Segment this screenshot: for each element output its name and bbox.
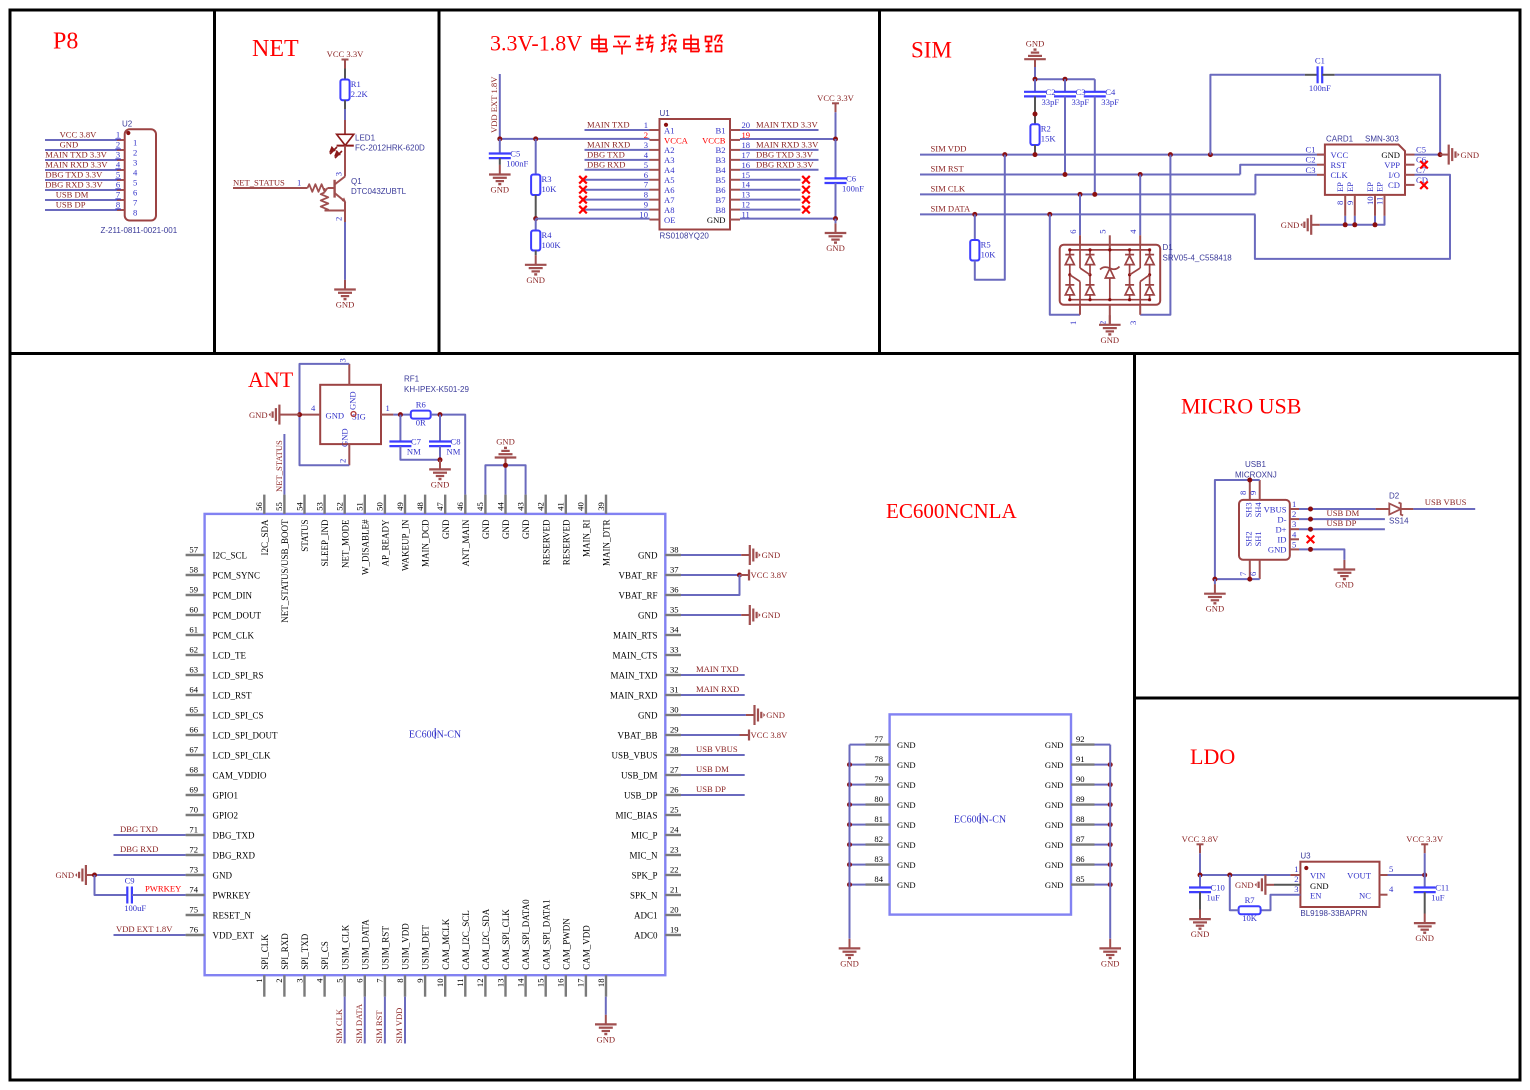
- wire VCC 3.3V to VCCB: [835, 112, 837, 139]
- svg-text:72: 72: [189, 845, 198, 855]
- U1 pin 5 stub: [650, 169, 660, 171]
- U1 pin 3 stub: [650, 149, 660, 151]
- LDO U3 body: [1300, 862, 1379, 907]
- svg-text:B3: B3: [715, 155, 725, 165]
- svg-text:1: 1: [644, 120, 648, 130]
- svg-text:SIM CLK: SIM CLK: [334, 1008, 344, 1043]
- D1 column 3 links: [1129, 250, 1131, 255]
- svg-text:GND: GND: [55, 870, 74, 880]
- ground below C11: [1414, 914, 1436, 944]
- module pin 2 stub: [283, 975, 285, 997]
- capacitor C6 100nF: [825, 174, 865, 194]
- U1 pin 8 stub: [650, 199, 660, 201]
- svg-text:EP: EP: [1375, 182, 1385, 192]
- wire pin 37 VCC3.8: [681, 574, 740, 576]
- wire pin 29 VCC3.8: [681, 734, 740, 736]
- svg-text:73: 73: [189, 865, 198, 875]
- svg-text:GND: GND: [638, 611, 658, 621]
- resistor R1 2.2K: [340, 79, 368, 100]
- module pin 43 stub: [524, 495, 526, 514]
- svg-text:MAIN_RXD: MAIN_RXD: [610, 691, 658, 701]
- svg-text:1: 1: [1294, 864, 1298, 874]
- svg-text:45: 45: [475, 502, 485, 511]
- svg-text:MAIN_TXD: MAIN_TXD: [611, 671, 658, 681]
- svg-text:SIM VDD: SIM VDD: [931, 144, 967, 154]
- wire pin 27 USB DM: [681, 774, 745, 776]
- svg-text:I/O: I/O: [1389, 170, 1400, 180]
- wire GND block left rail: [849, 745, 851, 939]
- wire VCC3.8 to VIN rail: [1199, 853, 1201, 875]
- wire bus SIM CLK: [920, 193, 1255, 195]
- wire GND block right rail: [1109, 745, 1111, 939]
- capacitor C10 1uF: [1189, 883, 1225, 903]
- U2 pin 4 stub: [117, 169, 125, 171]
- svg-text:WAKEUP_IN: WAKEUP_IN: [401, 519, 411, 571]
- svg-text:C4: C4: [1105, 87, 1116, 97]
- wire VOUT to VCC3.3: [1388, 874, 1425, 876]
- svg-text:87: 87: [1076, 834, 1085, 844]
- svg-text:D1: D1: [1163, 243, 1174, 252]
- svg-text:GND: GND: [213, 871, 233, 881]
- svg-text:USIM_DATA: USIM_DATA: [360, 919, 370, 970]
- D1 diode column 3 top diode: [1125, 255, 1134, 265]
- svg-text:5: 5: [644, 160, 648, 170]
- svg-text:69: 69: [189, 785, 198, 795]
- svg-text:15: 15: [536, 979, 546, 988]
- wire DBG RXD to pin 72: [114, 854, 186, 856]
- GND block pin 91 stub: [1071, 763, 1095, 765]
- svg-text:LCD_TE: LCD_TE: [213, 651, 247, 661]
- svg-text:3: 3: [1128, 321, 1138, 325]
- module pin 21 stub: [665, 894, 681, 896]
- junction SIM RST/D1 pin4: [1138, 172, 1143, 177]
- no-connect X CD: [1420, 181, 1428, 189]
- RF1 pin 1 stub: [381, 414, 393, 416]
- svg-text:VCC: VCC: [1331, 150, 1349, 160]
- junction SIM VDD/R2: [1033, 152, 1038, 157]
- svg-text:7: 7: [375, 978, 385, 983]
- junction SIM DATA/R5: [972, 212, 977, 217]
- no-connect wire U1 pin 7: [585, 189, 650, 191]
- svg-text:SIM DATA: SIM DATA: [931, 203, 971, 213]
- svg-text:CAM_PWDN: CAM_PWDN: [561, 918, 571, 970]
- capacitor C2 33pF: [1024, 87, 1059, 107]
- capacitor C7 NM: [389, 437, 421, 457]
- svg-text:4: 4: [314, 978, 324, 983]
- svg-text:3: 3: [116, 150, 120, 160]
- svg-text:33pF: 33pF: [1072, 97, 1090, 107]
- svg-text:66: 66: [189, 725, 198, 735]
- svg-text:10: 10: [639, 210, 648, 220]
- svg-text:52: 52: [335, 502, 345, 511]
- capacitor C5 100nF: [489, 149, 529, 169]
- power flag VCC 3.3V: [327, 49, 365, 69]
- svg-text:57: 57: [189, 545, 198, 555]
- svg-text:P8: P8: [53, 29, 78, 55]
- wire DBG RXD to U1: [585, 169, 650, 171]
- GND block pin 88 stub: [1071, 823, 1095, 825]
- RF1 pin 2 stub: [348, 444, 350, 465]
- svg-text:VPP: VPP: [1384, 160, 1400, 170]
- wire zigzag to base: [328, 187, 335, 189]
- svg-text:U3: U3: [1300, 852, 1311, 861]
- svg-text:GND: GND: [1045, 740, 1064, 750]
- svg-text:13: 13: [495, 979, 505, 988]
- U1 pin 2 stub: [650, 139, 660, 141]
- svg-text:33: 33: [670, 645, 679, 655]
- D1 column 4 links: [1149, 250, 1151, 255]
- power flag VCC 3.8V at pin 37: [740, 570, 789, 581]
- junction R6/C7: [398, 412, 403, 417]
- U3 pin 1 stub: [1290, 874, 1300, 876]
- svg-text:0R: 0R: [416, 417, 426, 427]
- title char huan: [661, 35, 677, 53]
- svg-text:3: 3: [294, 979, 304, 983]
- svg-text:44: 44: [495, 502, 505, 511]
- wire SIM RST step to C2: [1240, 165, 1317, 175]
- CARD1 EP pin stubs: [1344, 195, 1346, 216]
- wire net GND to U2 pin 2: [45, 149, 117, 151]
- svg-text:SLEEP_IND: SLEEP_IND: [320, 519, 330, 567]
- U1 pin 1 stub: [650, 129, 660, 131]
- wire U1 GND pin11: [740, 218, 836, 220]
- svg-text:GND: GND: [340, 428, 350, 447]
- svg-text:100nF: 100nF: [506, 159, 528, 169]
- RF1 inner pin circle: [351, 412, 356, 417]
- svg-text:60: 60: [189, 605, 198, 615]
- wire net USB DP to U2 pin 8: [45, 209, 117, 211]
- svg-text:LCD_RST: LCD_RST: [213, 691, 253, 701]
- module pin 52 stub: [344, 495, 346, 514]
- svg-text:NET: NET: [252, 36, 299, 62]
- svg-text:C1: C1: [1305, 145, 1315, 155]
- module pin 53 stub: [323, 495, 325, 514]
- svg-text:R3: R3: [542, 174, 552, 184]
- svg-text:ANT_MAIN: ANT_MAIN: [461, 519, 471, 566]
- module pin 26 stub: [665, 794, 681, 796]
- junction C6/pin11: [833, 216, 838, 221]
- svg-text:R5: R5: [981, 240, 991, 250]
- svg-text:5: 5: [1292, 539, 1296, 549]
- svg-text:USB_DP: USB_DP: [624, 791, 658, 801]
- svg-text:SIM VDD: SIM VDD: [394, 1008, 404, 1044]
- svg-text:B5: B5: [715, 175, 725, 185]
- module pin 40 stub: [585, 495, 587, 514]
- svg-text:9: 9: [1248, 491, 1258, 495]
- wire net DBG TXD 3.3V to U2 pin 5: [45, 179, 117, 181]
- power flag VCC 3.8V at pin 29: [740, 730, 789, 741]
- module pin 66 stub: [186, 734, 205, 736]
- svg-text:A2: A2: [664, 145, 675, 155]
- D1 pin3 inner link: [1139, 282, 1141, 305]
- module pin 74 stub: [186, 894, 205, 896]
- GND block pin 85 wire: [1095, 884, 1111, 886]
- svg-text:USB DM: USB DM: [696, 764, 729, 774]
- connector U2: [125, 129, 156, 220]
- svg-text:LCD_SPI_CS: LCD_SPI_CS: [213, 711, 264, 721]
- svg-text:GND: GND: [249, 410, 268, 420]
- svg-text:83: 83: [874, 854, 883, 864]
- svg-text:4: 4: [1128, 229, 1138, 234]
- svg-text:82: 82: [874, 834, 883, 844]
- wire MAIN TXD 3.3V from U1: [740, 129, 819, 131]
- wire net USB DM to U2 pin 7: [45, 199, 117, 201]
- D1 inner bottom rail: [1070, 299, 1150, 301]
- svg-text:USB VBUS: USB VBUS: [696, 744, 738, 754]
- wire SIM RST to D1 pin 4: [1139, 175, 1141, 236]
- svg-text:GND: GND: [897, 860, 916, 870]
- svg-text:DBG RXD: DBG RXD: [120, 844, 158, 854]
- wire MAIN TXD to U1: [585, 129, 650, 131]
- svg-text:27: 27: [670, 765, 679, 775]
- resistor R4 100K: [531, 230, 561, 251]
- junction SIM VDD/C1: [1208, 152, 1213, 157]
- svg-text:GND: GND: [762, 610, 781, 620]
- U1 pin 16 stub: [730, 169, 740, 171]
- svg-text:5: 5: [1389, 864, 1393, 874]
- svg-text:VDD EXT 1.8V: VDD EXT 1.8V: [489, 76, 499, 133]
- junction EP10: [1373, 222, 1378, 227]
- wire pin3 USB DP: [1299, 528, 1385, 530]
- junction SIM CLK/C4: [1092, 192, 1097, 197]
- svg-text:2: 2: [1294, 874, 1298, 884]
- svg-text:DBG RXD 3.3V: DBG RXD 3.3V: [45, 180, 103, 190]
- module pin 3 stub: [303, 975, 305, 997]
- svg-text:GND: GND: [897, 840, 916, 850]
- svg-text:3: 3: [338, 358, 348, 362]
- svg-text:B8: B8: [715, 205, 725, 215]
- svg-text:61: 61: [189, 625, 198, 635]
- capacitor C4 33pF: [1084, 87, 1119, 107]
- junction R3/R4/OE: [533, 216, 538, 221]
- wire SIM DATA to D1 pin 1: [1050, 214, 1080, 314]
- D1 pin 2 stub: [1109, 305, 1111, 319]
- ground below R4: [525, 255, 547, 285]
- svg-text:R6: R6: [416, 400, 427, 410]
- module pin 23 stub: [665, 854, 681, 856]
- U1 pin 11 stub: [730, 219, 740, 221]
- svg-text:84: 84: [874, 874, 883, 884]
- title char dian: [592, 35, 607, 52]
- svg-text:GND: GND: [1310, 881, 1329, 891]
- junction pin73/C9: [92, 873, 97, 878]
- title char ping: [613, 37, 631, 55]
- U1 pin 6 stub: [650, 179, 660, 181]
- wire pin 35 GND: [681, 614, 741, 616]
- svg-text:2: 2: [116, 140, 120, 150]
- power flag VCC 3.3V (LDO): [1406, 834, 1444, 854]
- module pin 47 stub: [444, 495, 446, 514]
- svg-text:B1: B1: [715, 125, 725, 135]
- svg-text:SH2: SH2: [1244, 531, 1254, 546]
- svg-text:10: 10: [435, 979, 445, 988]
- no-connect wire U1 pin 13: [740, 199, 801, 201]
- svg-text:MAIN RXD 3.3V: MAIN RXD 3.3V: [756, 139, 819, 149]
- svg-text:49: 49: [395, 502, 405, 511]
- svg-text:2: 2: [338, 459, 348, 463]
- D1 diode column 1 bottom diode: [1065, 285, 1074, 295]
- svg-text:NET_STATUS/USB_BOOT: NET_STATUS/USB_BOOT: [280, 519, 290, 623]
- junction rail/C2: [1033, 77, 1038, 82]
- module pin 60 stub: [186, 614, 205, 616]
- svg-text:SPI_TXD: SPI_TXD: [300, 933, 310, 970]
- wire DBG RXD 3.3V from U1: [740, 169, 819, 171]
- svg-text:35: 35: [670, 605, 679, 615]
- svg-text:VDD EXT 1.8V: VDD EXT 1.8V: [116, 924, 173, 934]
- svg-text:67: 67: [189, 745, 198, 755]
- module pin 22 stub: [665, 874, 681, 876]
- svg-text:LED1: LED1: [355, 134, 376, 143]
- svg-text:1: 1: [116, 130, 120, 140]
- junction shield left bottom: [1212, 577, 1217, 582]
- svg-text:C3: C3: [1305, 165, 1315, 175]
- svg-text:USIM_RST: USIM_RST: [381, 926, 391, 970]
- svg-text:50: 50: [375, 502, 385, 511]
- no-connect X pin4 ID: [1307, 536, 1315, 544]
- svg-text:SIM RST: SIM RST: [374, 1010, 384, 1044]
- RF1 pin 3 stub: [348, 364, 350, 385]
- svg-text:R7: R7: [1245, 895, 1256, 905]
- wire to C5: [499, 139, 501, 154]
- title char dian2: [684, 35, 699, 52]
- wire net MAIN TXD 3.3V to U2 pin 3: [45, 159, 117, 161]
- svg-text:MICROXNJ: MICROXNJ: [1235, 471, 1277, 480]
- wire C3 to SIM RST: [1064, 96, 1066, 174]
- wire C1 right: [1322, 74, 1335, 76]
- svg-text:D+: D+: [1275, 525, 1286, 535]
- svg-text:DTC043ZUBTL: DTC043ZUBTL: [351, 187, 407, 196]
- resistor R5 10K: [970, 240, 996, 261]
- svg-text:9: 9: [1345, 201, 1355, 205]
- svg-text:USB_VBUS: USB_VBUS: [611, 751, 657, 761]
- GND block pin 80 wire: [850, 804, 866, 806]
- svg-text:USB_DM: USB_DM: [621, 771, 658, 781]
- svg-text:VBAT_RF: VBAT_RF: [618, 571, 657, 581]
- svg-text:STATUS: STATUS: [300, 520, 310, 552]
- U1 pin 10 stub: [650, 219, 660, 221]
- CARD1 pin CD stub: [1405, 184, 1415, 186]
- U1 pin 13 stub: [730, 199, 740, 201]
- svg-text:GND: GND: [336, 300, 355, 310]
- module pin 33 stub: [665, 654, 681, 656]
- svg-text:LCD_SPI_RS: LCD_SPI_RS: [213, 671, 264, 681]
- svg-text:1: 1: [1068, 321, 1078, 325]
- svg-text:8: 8: [133, 208, 137, 218]
- junction SIM VDD/R5column: [1002, 152, 1007, 157]
- svg-text:EP: EP: [1345, 182, 1355, 192]
- svg-text:I2C_SDA: I2C_SDA: [260, 519, 270, 556]
- svg-text:Q1: Q1: [351, 177, 362, 186]
- svg-text:VCCA: VCCA: [664, 135, 689, 145]
- svg-text:VCC 3.3V: VCC 3.3V: [327, 49, 365, 59]
- svg-text:40: 40: [576, 502, 586, 511]
- wire C7 to SIM DATA loop: [1255, 175, 1450, 259]
- svg-text:PCM_DOUT: PCM_DOUT: [213, 611, 262, 621]
- svg-text:8: 8: [1335, 201, 1345, 205]
- D1 diode column 2 bottom diode: [1086, 285, 1095, 295]
- module pin 73 stub: [186, 874, 205, 876]
- svg-text:PCM_DIN: PCM_DIN: [213, 591, 253, 601]
- divider P8/NET: [213, 9, 216, 354]
- GND block pin 85 stub: [1071, 883, 1095, 885]
- svg-text:SRV05-4_C558418: SRV05-4_C558418: [1163, 254, 1233, 263]
- svg-text:GND: GND: [348, 391, 358, 410]
- module pin 7 stub: [384, 975, 386, 997]
- wire VCCB to C6: [835, 139, 837, 178]
- svg-text:USIM_VDD: USIM_VDD: [401, 923, 411, 970]
- U1 pin-1 mark: [664, 123, 668, 127]
- svg-text:MAIN TXD: MAIN TXD: [696, 664, 739, 674]
- svg-text:CAM_VDDIO: CAM_VDDIO: [213, 771, 268, 781]
- module pin 45 stub: [484, 495, 486, 514]
- wire DBG TXD to pin 71: [114, 834, 186, 836]
- GND block pin 90 stub: [1071, 783, 1095, 785]
- svg-text:VIN: VIN: [1310, 871, 1326, 881]
- junction DP: [1308, 527, 1313, 532]
- wire VCC to R1: [344, 69, 346, 80]
- svg-text:MAIN RXD: MAIN RXD: [587, 139, 630, 149]
- wire gnd to pins 45 44 43: [485, 465, 525, 494]
- svg-text:12: 12: [475, 979, 485, 988]
- svg-text:47: 47: [435, 502, 445, 511]
- svg-text:SIM CLK: SIM CLK: [931, 183, 966, 193]
- svg-text:GND: GND: [1281, 220, 1300, 230]
- module body EC600N-CN: [205, 514, 666, 975]
- svg-text:GND: GND: [1045, 880, 1064, 890]
- title char zhuan: [636, 35, 654, 53]
- svg-text:GND: GND: [897, 880, 916, 890]
- junction C10: [1198, 873, 1203, 878]
- U3 pin-1 mark: [1304, 866, 1308, 870]
- junction VBUS: [1308, 507, 1313, 512]
- GND block pin 86 wire: [1095, 864, 1111, 866]
- svg-text:48: 48: [415, 502, 425, 511]
- svg-text:ID: ID: [1277, 535, 1286, 545]
- divider NET/level-shift: [438, 9, 441, 354]
- svg-text:C2: C2: [1305, 155, 1315, 165]
- GND block pin 79 wire: [850, 784, 866, 786]
- wire pin 30 GND: [681, 714, 746, 716]
- svg-text:GND: GND: [496, 437, 515, 447]
- module pin 67 stub: [186, 754, 205, 756]
- svg-text:2: 2: [1292, 509, 1296, 519]
- wire shield to GND: [1214, 579, 1216, 584]
- ground GND below Q1: [334, 280, 356, 310]
- svg-text:SIM RST: SIM RST: [931, 164, 965, 174]
- svg-text:EP: EP: [1335, 182, 1345, 192]
- svg-text:U2: U2: [122, 120, 133, 129]
- D1 pin1 inner link: [1079, 282, 1081, 305]
- svg-text:8: 8: [116, 200, 120, 210]
- U1 pin 12 stub: [730, 209, 740, 211]
- wire pin 31 MAIN RXD: [681, 694, 745, 696]
- capacitor C9 100uF: [124, 876, 146, 914]
- wire C5 to GND: [1415, 154, 1441, 156]
- USB connector USB1 body: [1239, 500, 1290, 560]
- module pin 15 stub: [545, 975, 547, 997]
- svg-text:CAM_SPI_DATA1: CAM_SPI_DATA1: [541, 899, 551, 969]
- svg-text:6: 6: [116, 180, 121, 190]
- power flag VCC 3.3V (level shift): [817, 93, 855, 113]
- svg-text:64: 64: [189, 685, 198, 695]
- svg-text:81: 81: [874, 814, 883, 824]
- junction SIM VDD/D1 pin3 column: [1168, 152, 1173, 157]
- svg-text:7: 7: [644, 180, 649, 190]
- wire NET_STATUS to pin 55: [283, 434, 285, 495]
- junction R7 column: [1227, 873, 1232, 878]
- module pin 58 stub: [186, 574, 205, 576]
- U2 pin 2 stub: [117, 149, 125, 151]
